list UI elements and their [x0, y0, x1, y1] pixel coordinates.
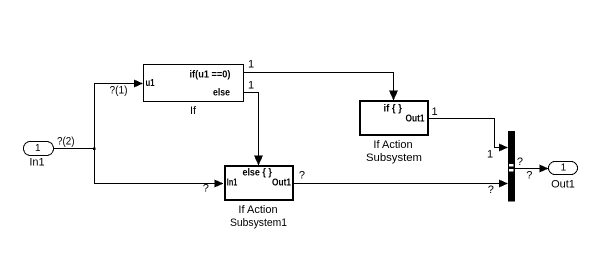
svg-text:1: 1 — [561, 163, 567, 174]
wire If else out to If Action Subsystem1, label 1 — [243, 80, 263, 166]
wire If Action Subsystem out to Merge, label 1 — [429, 119, 509, 161]
svg-text:u1: u1 — [146, 78, 155, 89]
svg-text:Out1: Out1 — [551, 179, 575, 191]
wire junction down to If Action Subsystem1 input, label ? — [95, 149, 224, 195]
svg-text:else { }: else { } — [242, 168, 272, 179]
svg-text:If Action: If Action — [373, 139, 412, 151]
svg-text:else: else — [213, 88, 230, 99]
wire junction up to If input, label ?(1) — [95, 80, 144, 149]
svg-text:?: ? — [203, 183, 209, 195]
svg-text:1: 1 — [248, 80, 254, 92]
svg-text:?(2): ?(2) — [57, 136, 75, 148]
svg-text:Out1: Out1 — [406, 114, 425, 125]
svg-text:?: ? — [526, 170, 532, 182]
svg-text:Subsystem1: Subsystem1 — [230, 217, 287, 229]
If Action Subsystem block — [360, 101, 438, 164]
svg-text:1: 1 — [432, 106, 438, 118]
svg-text:1: 1 — [35, 143, 41, 154]
Merge block — [508, 131, 515, 202]
wire If Action Subsystem1 out to Merge, labels ? ? — [294, 170, 509, 197]
output port Out1 — [549, 162, 578, 191]
wire In1 to junction, label ?(2) — [54, 136, 94, 149]
svg-text:?(1): ?(1) — [110, 85, 128, 97]
svg-text:1: 1 — [248, 59, 254, 71]
If block — [144, 65, 244, 118]
svg-text:In1: In1 — [29, 157, 44, 169]
If Action Subsystem1 block — [225, 166, 293, 229]
svg-text:In1: In1 — [227, 178, 238, 189]
svg-text:if { }: if { } — [383, 104, 402, 115]
svg-text:Subsystem: Subsystem — [366, 152, 422, 164]
svg-text:if(u1 ==0): if(u1 ==0) — [190, 70, 231, 81]
svg-text:If Action: If Action — [238, 204, 277, 216]
wire Merge out to Out1, labels ? ? — [515, 156, 549, 182]
svg-text:?: ? — [488, 184, 494, 196]
svg-text:Out1: Out1 — [272, 178, 291, 189]
svg-text:1: 1 — [487, 149, 493, 161]
svg-text:?: ? — [299, 170, 305, 182]
svg-text:If: If — [190, 105, 197, 117]
svg-text:?: ? — [517, 156, 523, 168]
input port In1 — [24, 142, 54, 169]
node junction — [93, 148, 96, 151]
wire If out1 to If Action Subsystem, label 1 — [243, 59, 398, 101]
